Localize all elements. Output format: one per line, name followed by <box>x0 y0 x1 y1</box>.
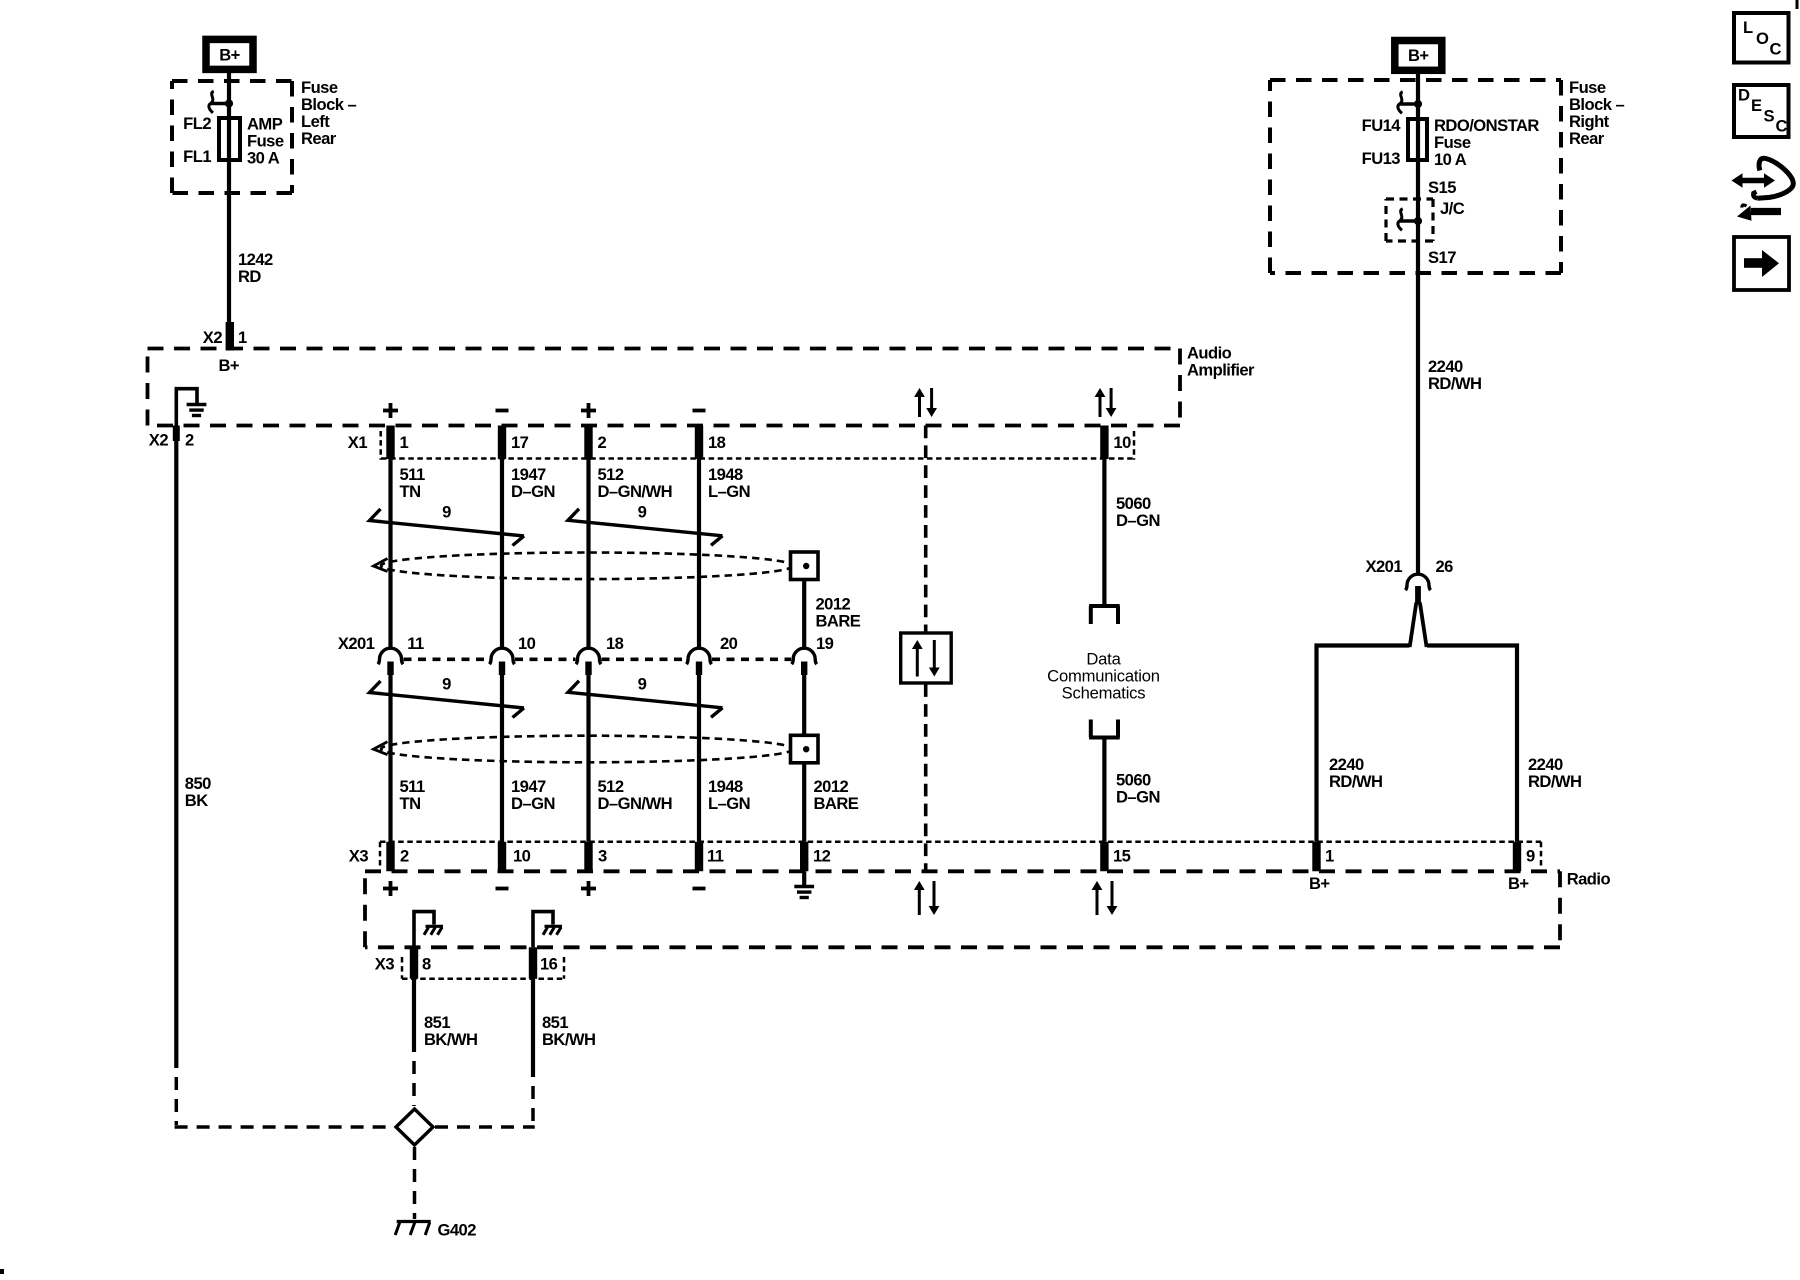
X3 pin 16 stub <box>529 947 537 978</box>
svg-text:L–GN: L–GN <box>708 482 750 501</box>
wire 1948 L-GN (upper) <box>697 459 701 650</box>
svg-text:X3: X3 <box>375 955 395 974</box>
svg-text:10: 10 <box>1113 433 1131 452</box>
X3/radio pin 15 stub <box>1100 842 1108 872</box>
wire splice to G402 (dashed) <box>413 1147 417 1219</box>
polarity + (X1 pin 2) <box>581 409 596 413</box>
shield ellipse (upper) <box>381 553 793 580</box>
svg-text:B+: B+ <box>1408 46 1429 65</box>
fuse FL1/FL2 AMP Fuse 30 A <box>219 118 240 160</box>
X1 pin 2 stub <box>584 426 592 460</box>
svg-text:15: 15 <box>1113 847 1131 866</box>
label Data Communication Schematics <box>1047 650 1160 703</box>
svg-text:9: 9 <box>638 503 647 522</box>
wire 5060 D-GN (upper) <box>1102 459 1106 605</box>
svg-text:B+: B+ <box>219 45 240 64</box>
X3/radio pin 3 stub <box>584 842 592 872</box>
X3/radio pin 1 stub <box>1312 842 1320 872</box>
wire 1948 L-GN (lower) <box>697 675 701 842</box>
shield ellipse arrow (upper) <box>374 559 388 572</box>
node B+ battery feed (right) <box>1395 41 1442 71</box>
svg-text:B+: B+ <box>1508 874 1529 893</box>
polarity + (radio pin 2) <box>383 887 398 891</box>
wire 1947 D-GN (upper) <box>500 459 504 650</box>
connector X201 pin 19 terminal <box>792 648 817 664</box>
ground G402 symbol <box>397 1220 431 1223</box>
X1 pin 10 stub <box>1100 426 1108 460</box>
wire 511 TN (lower) <box>388 675 392 842</box>
svg-text:TN: TN <box>400 482 421 501</box>
wire 2012 BARE (lower) <box>802 675 806 735</box>
svg-text:1: 1 <box>400 433 409 452</box>
svg-text:X3: X3 <box>349 847 369 866</box>
svg-text:BARE: BARE <box>814 794 859 813</box>
svg-text:B+: B+ <box>219 356 240 375</box>
svg-text:2: 2 <box>400 847 409 866</box>
svg-text:D: D <box>1738 86 1750 105</box>
twisted leads symbol (upper right pair) <box>568 509 723 536</box>
connector X3 outline (dotted, long) <box>379 842 382 868</box>
svg-text:30 A: 30 A <box>247 149 280 168</box>
junction connector J/C (dashed box) <box>1386 197 1433 200</box>
svg-text:FL2: FL2 <box>183 114 211 133</box>
svg-text:L: L <box>1743 18 1753 37</box>
audio amplifier (dashed box) <box>148 347 1181 351</box>
shield ground wire inside radio <box>802 871 806 886</box>
svg-text:11: 11 <box>707 847 724 866</box>
internal connection symbol (J/C) <box>1400 219 1419 222</box>
svg-text:X1: X1 <box>348 433 368 452</box>
icon schematic navigation squiggle <box>1742 178 1765 184</box>
X3/radio pin 10 stub <box>498 842 506 872</box>
radio (dashed box) <box>365 869 1560 873</box>
polarity + (radio pin 3) <box>581 887 596 891</box>
X1 pin 17 stub <box>498 426 506 460</box>
X3/radio pin 12 stub <box>800 842 808 872</box>
svg-text:E: E <box>1751 96 1762 115</box>
svg-text:D–GN: D–GN <box>1116 788 1160 807</box>
connector X201 pin 11 terminal <box>378 648 403 664</box>
off-page terminal (lower) <box>1089 736 1120 740</box>
shield ellipse (lower) <box>381 736 793 763</box>
connector X201 pin 20 terminal <box>687 648 712 664</box>
wire 850 BK dashed to splice <box>175 1068 179 1125</box>
wire 851 BK/WH (pin 16) dashed <box>531 1077 535 1125</box>
wire 850 BK solid <box>174 440 178 1068</box>
polarity - (radio pin 10) <box>496 887 509 891</box>
X201 pin 10 lower stub <box>499 662 505 676</box>
svg-text:X201: X201 <box>338 634 375 653</box>
svg-text:20: 20 <box>720 634 738 653</box>
svg-text:16: 16 <box>540 955 558 974</box>
serial data arrows inside amplifier right <box>1099 395 1102 417</box>
X201 pin 18 lower stub <box>585 662 591 676</box>
svg-text:J/C: J/C <box>1440 199 1465 218</box>
wire 512 D-GN/WH (upper) <box>586 459 590 650</box>
fuse block - left rear (dashed outline) <box>172 79 292 83</box>
svg-text:12: 12 <box>813 847 831 866</box>
svg-text:BK/WH: BK/WH <box>424 1030 477 1049</box>
wire 5060 D-GN (lower) <box>1102 738 1106 842</box>
shield drain pickup box (upper) <box>791 552 819 580</box>
svg-text:C: C <box>1776 117 1788 136</box>
twisted leads symbol (lower right pair) <box>568 681 723 708</box>
X201 pin 20 lower stub <box>696 662 702 676</box>
svg-text:L–GN: L–GN <box>708 794 750 813</box>
svg-text:Schematics: Schematics <box>1062 684 1146 703</box>
svg-text:S: S <box>1764 107 1775 126</box>
internal connection symbol (right fuse block) <box>1400 102 1419 105</box>
svg-text:1: 1 <box>238 328 247 347</box>
X201 pin 19 lower stub <box>801 662 807 676</box>
svg-text:X201: X201 <box>1365 557 1402 576</box>
svg-text:9: 9 <box>442 675 451 694</box>
svg-text:2: 2 <box>185 431 194 450</box>
fuse FU13/FU14 RDO/ONSTAR 10A <box>1408 119 1427 160</box>
svg-text:Amplifier: Amplifier <box>1187 361 1255 380</box>
wire 511 TN (upper) <box>388 459 392 650</box>
connector X201 pin 26 terminal <box>1406 574 1431 590</box>
X3/radio pin 2 stub <box>386 842 394 872</box>
svg-text:26: 26 <box>1436 557 1454 576</box>
serial data connector box <box>901 633 952 683</box>
page edge artifacts <box>1796 0 1799 9</box>
internal connection symbol (left fuse block) <box>211 102 230 105</box>
svg-text:G402: G402 <box>438 1221 477 1240</box>
fuse block - right rear (dashed outline) <box>1270 78 1561 82</box>
wire 512 D-GN/WH (lower) <box>586 675 590 842</box>
svg-text:S17: S17 <box>1428 248 1456 267</box>
svg-text:RD/WH: RD/WH <box>1428 374 1481 393</box>
connector X201 dashed line <box>404 657 490 661</box>
radio internal ground wire (pin 8) <box>414 912 434 948</box>
X201 pin 11 lower stub <box>387 662 393 676</box>
polarity - (radio pin 11) <box>693 887 706 891</box>
svg-text:9: 9 <box>442 503 451 522</box>
shield drain pickup box (lower) <box>791 735 819 763</box>
chassis ground symbol (pin 16 circuit) <box>545 925 563 928</box>
svg-text:10: 10 <box>518 634 536 653</box>
svg-text:FU13: FU13 <box>1362 149 1401 168</box>
svg-text:S15: S15 <box>1428 178 1456 197</box>
svg-text:D–GN/WH: D–GN/WH <box>598 794 673 813</box>
svg-text:FU14: FU14 <box>1362 116 1402 135</box>
radio internal ground wire (pin 16) <box>533 912 553 948</box>
svg-text:X2: X2 <box>203 328 223 347</box>
node B+ battery feed (left) <box>206 39 253 69</box>
svg-text:RD/WH: RD/WH <box>1329 772 1382 791</box>
wire 2012 BARE (upper) <box>802 580 806 650</box>
svg-text:BK: BK <box>185 791 208 810</box>
wire split Y to radio B+ pins <box>1410 603 1417 648</box>
serial data wire (dashed) amplifier to radio <box>924 426 928 872</box>
svg-text:RD/WH: RD/WH <box>1528 772 1581 791</box>
svg-text:10: 10 <box>513 847 531 866</box>
svg-text:11: 11 <box>407 634 424 653</box>
svg-text:9: 9 <box>638 675 647 694</box>
svg-text:D–GN: D–GN <box>1116 511 1160 530</box>
ground symbol (radio pin 12) <box>794 885 814 888</box>
svg-text:RD: RD <box>238 267 261 286</box>
serial data arrows inside radio <box>918 888 921 915</box>
shield ellipse arrow (lower) <box>374 742 388 755</box>
X201 pin 26 lower stub <box>1415 586 1421 605</box>
wire B+ through fuse FU13/FU14 down to X201 <box>1416 73 1420 576</box>
svg-text:2: 2 <box>598 433 607 452</box>
amplifier internal ground wire <box>176 389 197 426</box>
X1 pin 1 stub <box>386 426 394 460</box>
svg-text:D–GN/WH: D–GN/WH <box>598 482 673 501</box>
X3/radio pin 9 stub <box>1513 842 1521 872</box>
svg-text:Radio: Radio <box>1567 870 1611 889</box>
connector X201 pin 18 terminal <box>576 648 601 664</box>
polarity + (X1 pin 1) <box>383 409 398 413</box>
svg-text:BK/WH: BK/WH <box>542 1030 595 1049</box>
svg-text:BARE: BARE <box>816 612 861 631</box>
connector X2 pin 1 stub <box>226 322 234 351</box>
polarity - (X1 pin 17) <box>496 409 509 413</box>
splice diamond <box>396 1109 433 1145</box>
wire 851 BK/WH (pin 8) solid <box>412 979 416 1052</box>
icon DESC box <box>1734 85 1789 137</box>
svg-text:FL1: FL1 <box>183 147 211 166</box>
X2 pin 2 stub <box>173 426 180 442</box>
X1 pin 18 stub <box>695 426 703 460</box>
svg-text:D–GN: D–GN <box>511 794 555 813</box>
ground symbol inside amplifier <box>187 403 207 406</box>
svg-text:X2: X2 <box>149 431 169 450</box>
polarity - (X1 pin 18) <box>693 409 706 413</box>
wire 1947 D-GN (lower) <box>500 675 504 842</box>
serial data arrows inside radio right <box>1096 888 1099 915</box>
svg-text:D–GN: D–GN <box>511 482 555 501</box>
svg-text:3: 3 <box>598 847 607 866</box>
svg-text:18: 18 <box>606 634 624 653</box>
svg-text:19: 19 <box>816 634 834 653</box>
chassis ground symbol (pin 8 circuit) <box>426 925 444 928</box>
X3 pin 8 stub <box>410 947 418 978</box>
svg-text:8: 8 <box>422 955 431 974</box>
connector X201 pin 10 terminal <box>490 648 515 664</box>
svg-text:10 A: 10 A <box>1434 150 1467 169</box>
connector X3 outline (dotted, bottom) <box>401 957 404 979</box>
twisted leads symbol (lower left pair) <box>370 681 525 708</box>
serial data arrows in box <box>916 647 919 677</box>
wire 851 BK/WH (pin 8) dashed <box>412 1052 416 1106</box>
svg-text:O: O <box>1756 29 1769 48</box>
serial data arrows inside amplifier <box>918 395 921 417</box>
svg-text:1: 1 <box>1325 847 1334 866</box>
icon LOC box <box>1734 13 1789 63</box>
svg-text:Rear: Rear <box>1569 129 1605 148</box>
svg-text:C: C <box>1770 40 1782 59</box>
twisted leads symbol (upper left pair) <box>370 509 525 536</box>
svg-text:Rear: Rear <box>301 129 337 148</box>
off-page terminal (upper) <box>1089 604 1120 608</box>
svg-text:17: 17 <box>511 433 529 452</box>
svg-text:TN: TN <box>400 794 421 813</box>
svg-text:B+: B+ <box>1309 874 1330 893</box>
wire 851 BK/WH (pin 16) solid <box>531 979 535 1077</box>
svg-text:18: 18 <box>708 433 726 452</box>
icon forward arrow box <box>1734 237 1789 290</box>
wire B+ to fuse FL2/FL1 and down to amplifier <box>227 73 231 324</box>
connector X1 outline (dotted) <box>379 431 382 460</box>
X3/radio pin 11 stub <box>695 842 703 872</box>
svg-text:9: 9 <box>1526 847 1535 866</box>
